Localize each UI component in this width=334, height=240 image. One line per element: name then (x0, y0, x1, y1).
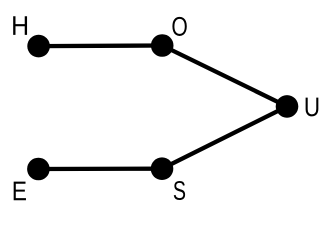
node S vertex dot (151, 157, 174, 180)
label H (13, 16, 27, 35)
wire edge S-E (38, 167, 162, 172)
node O vertex dot (151, 34, 174, 57)
label O (172, 17, 186, 36)
node U vertex dot (276, 95, 299, 118)
wire edge H-O (39, 43, 163, 48)
node E vertex dot (27, 158, 50, 181)
wire edge U-S (162, 106, 287, 168)
label U (306, 98, 319, 117)
label S (174, 181, 185, 200)
wire edge O-U (162, 46, 287, 107)
label E (14, 182, 26, 201)
node H vertex dot (27, 35, 50, 58)
